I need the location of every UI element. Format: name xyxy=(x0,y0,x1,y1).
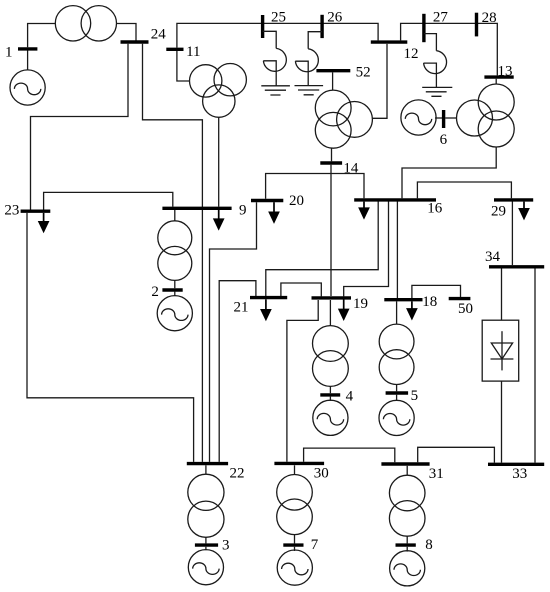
wire bus 4 to generator G4 xyxy=(329,397,331,401)
transformer T2 xyxy=(158,221,192,281)
svg-text:28: 28 xyxy=(482,10,497,26)
transformer T3 xyxy=(188,474,224,537)
wire bus 21 to bus 19 xyxy=(281,283,321,296)
wire transformer T6 to bus 6 xyxy=(445,117,456,119)
bus 12 xyxy=(371,40,408,43)
svg-text:29: 29 xyxy=(491,204,506,220)
generator G2 xyxy=(157,296,192,331)
bus 8 xyxy=(396,543,416,546)
wire HVDC box to bus 33 xyxy=(501,381,503,463)
bus 4 xyxy=(320,393,340,396)
generator G4 xyxy=(313,400,348,435)
bus 9 xyxy=(162,207,231,210)
wire bus 11 to transformer T11 xyxy=(177,51,190,81)
wire bus 14 to bus 19 xyxy=(330,165,332,296)
svg-text:23: 23 xyxy=(4,203,19,219)
bus 26 xyxy=(320,15,323,38)
svg-text:22: 22 xyxy=(230,465,245,481)
wire bus 13 to transformer T6 xyxy=(495,79,497,84)
bus 7 xyxy=(283,543,303,546)
wire bus 16 to bus 21 xyxy=(266,202,378,297)
wire transformer T2 to bus 2 xyxy=(174,280,176,288)
wire bus 30 to transformer T7 xyxy=(294,465,296,474)
svg-text:34: 34 xyxy=(485,249,501,265)
load arrow at bus 21 xyxy=(261,299,270,319)
load arrow at bus 16 xyxy=(360,202,369,218)
thyristor valve symbol xyxy=(491,331,514,370)
wire bus 18 to bus 50 xyxy=(412,285,461,298)
wire bus 24 through bus 9 to bus 22 xyxy=(143,44,203,462)
svg-text:1: 1 xyxy=(5,44,13,60)
SVC shunt device at bus 27 xyxy=(422,34,452,97)
bus 14 xyxy=(320,161,342,164)
transformer T7 xyxy=(277,475,313,535)
wire bus 31 to bus 33 xyxy=(418,447,495,462)
svg-text:30: 30 xyxy=(314,465,329,481)
wire transformer T5 to bus 5 xyxy=(396,385,398,392)
wire transformer T52 to bus 12 xyxy=(372,44,387,118)
svg-text:3: 3 xyxy=(222,538,230,554)
wire bus 12 to bus 27 bus 28 line to bus 13 xyxy=(401,23,498,75)
svg-text:9: 9 xyxy=(239,203,247,219)
wire bus 25 bus 26 line to bus 11 and bus 12 xyxy=(177,23,378,47)
svg-text:6: 6 xyxy=(440,132,448,148)
svg-text:20: 20 xyxy=(289,193,304,209)
svg-text:5: 5 xyxy=(411,388,419,404)
bus 2 xyxy=(162,288,182,291)
bus 5 xyxy=(386,391,409,394)
svg-text:21: 21 xyxy=(234,299,249,315)
wire bus 23 to bus 9 xyxy=(44,192,173,209)
bus 16 xyxy=(354,198,436,201)
bus 19 xyxy=(312,296,352,299)
wire bus 24 to bus 23 xyxy=(31,44,129,210)
transformer T4 xyxy=(313,326,349,387)
bus 33 xyxy=(488,463,544,466)
svg-text:19: 19 xyxy=(353,296,368,312)
wire transformer T6 to bus 16 xyxy=(402,147,496,198)
svg-text:12: 12 xyxy=(404,46,419,62)
wire bus 1 to generator G1 xyxy=(27,51,29,70)
bus 21 xyxy=(250,296,287,299)
svg-text:25: 25 xyxy=(271,9,286,25)
load arrow at bus 19 xyxy=(339,300,348,320)
bus 24 xyxy=(121,40,149,43)
svg-text:16: 16 xyxy=(427,200,443,216)
svg-text:8: 8 xyxy=(425,537,433,553)
generator G5 xyxy=(379,400,414,435)
wire gen1 to transformer T1 and bus 1 xyxy=(28,24,56,48)
wire transformer T3 to bus 3 xyxy=(205,537,207,543)
wire transformer T11 to bus 9 with load arrow xyxy=(218,117,220,206)
generator G6 xyxy=(401,100,436,135)
wire bus 16 to bus 29 xyxy=(417,182,511,198)
svg-text:2: 2 xyxy=(151,284,159,300)
svg-text:7: 7 xyxy=(311,537,319,553)
svg-text:13: 13 xyxy=(498,63,513,79)
wire bus 5 to generator G5 xyxy=(396,395,398,401)
wire bus 22 to transformer T3 xyxy=(205,465,207,474)
bus 1 xyxy=(18,47,37,50)
bus 25 xyxy=(261,15,264,38)
transformer T1 xyxy=(55,6,116,41)
wire bus 34 to bus 33 bypass xyxy=(534,269,536,463)
bus 22 xyxy=(187,462,228,465)
bus 23 xyxy=(21,209,51,212)
load arrow at bus 18 xyxy=(407,301,416,318)
wire bus 3 to generator G3 xyxy=(205,547,207,550)
bus 3 xyxy=(195,543,218,546)
wire bus 16 to bus 19 xyxy=(344,202,389,297)
wire bus 31 to transformer T8 xyxy=(406,466,408,475)
svg-text:11: 11 xyxy=(186,44,200,60)
load arrow at bus 20 xyxy=(270,202,279,222)
generator G7 xyxy=(277,550,312,585)
bus 29 xyxy=(494,198,533,201)
svg-text:31: 31 xyxy=(429,466,444,482)
SVC shunt device at bus 25 xyxy=(261,31,290,95)
wire transformer T7 to bus 7 xyxy=(294,535,296,544)
wire transformer T4 to bus 4 xyxy=(329,386,331,393)
load arrow at bus 23 xyxy=(39,213,48,231)
wire bus 9 to transformer T2 xyxy=(174,210,176,221)
wire bus 8 to generator G8 xyxy=(406,547,408,552)
svg-text:27: 27 xyxy=(433,9,449,25)
wire bus 29 to bus 34 xyxy=(511,202,513,266)
bus 13 xyxy=(484,75,513,78)
bus 20 xyxy=(251,199,283,202)
bus 18 xyxy=(384,298,422,301)
load arrow at bus 29 xyxy=(520,202,529,219)
svg-text:52: 52 xyxy=(356,65,371,81)
SVC shunt device at bus 26 xyxy=(295,32,324,95)
transformer T5 xyxy=(379,324,414,384)
bus 27 xyxy=(422,14,425,42)
wire generator G6 to bus 6 xyxy=(435,117,442,119)
wire bus 20 to bus 22 xyxy=(210,202,257,462)
ground at bus 25 shunt xyxy=(261,86,290,95)
wire bus 19 to transformer T4 xyxy=(329,300,331,326)
wire transformer T8 to bus 8 xyxy=(406,536,408,543)
transformer T6 three-winding xyxy=(457,84,515,147)
wire bus 18 to transformer T5 xyxy=(396,301,398,324)
transformer T8 xyxy=(389,475,425,536)
wire bus 20 to bus 16 xyxy=(266,174,364,199)
bus 34 xyxy=(489,265,544,268)
bus 50 xyxy=(449,297,471,300)
bus 28 xyxy=(475,13,478,37)
transformer T52 three-winding xyxy=(315,90,372,148)
load arrow at bus 9 xyxy=(214,210,223,229)
wire bus 16 to bus 18 xyxy=(396,202,398,299)
wire bus 7 to generator G7 xyxy=(294,547,296,551)
bus 52 xyxy=(316,69,350,72)
wire bus 2 to generator G2 xyxy=(174,292,176,297)
svg-text:26: 26 xyxy=(327,9,343,25)
wire bus 23 to bus 22 xyxy=(27,213,194,462)
wire bus 52 to transformer T52 xyxy=(332,72,334,90)
ground at bus 26 shunt xyxy=(295,86,324,95)
wire transformer T1 to bus 24 xyxy=(117,24,137,41)
HVDC converter box between bus 34 and bus 33 xyxy=(482,320,519,381)
bus 30 xyxy=(274,462,324,465)
svg-text:50: 50 xyxy=(458,301,473,317)
generator G1 xyxy=(10,70,45,105)
bus 11 xyxy=(166,48,183,51)
generator G3 xyxy=(188,550,223,585)
svg-text:33: 33 xyxy=(512,466,527,482)
svg-text:18: 18 xyxy=(422,294,437,310)
svg-text:4: 4 xyxy=(346,389,354,405)
wire bus 30 to bus 31 xyxy=(304,448,395,462)
generator G8 xyxy=(390,551,425,586)
ground at bus 27 shunt xyxy=(422,87,452,96)
wire bus 34 to HVDC box xyxy=(501,269,503,321)
transformer T11 three-winding xyxy=(190,63,247,117)
wire bus 21 to bus 22 xyxy=(219,281,256,462)
wire transformer T52 to bus 14 xyxy=(331,148,333,161)
bus 6 xyxy=(442,110,445,128)
bus 31 xyxy=(381,462,429,465)
svg-text:14: 14 xyxy=(343,161,359,177)
wire bus 19 to bus 30 xyxy=(287,300,318,462)
svg-text:24: 24 xyxy=(151,27,167,43)
